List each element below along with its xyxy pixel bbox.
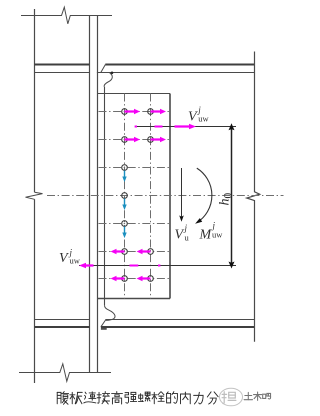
- Vuw top magenta arrow: [175, 124, 197, 130]
- bolt row 7 center line: [99, 278, 170, 280]
- bolt row1 col2: [148, 109, 154, 115]
- caption char 13 (dan, watermark-faded): [222, 392, 236, 404]
- bottom continuity plate thin line: [35, 319, 90, 321]
- column right flange outer line: [97, 16, 99, 373]
- bolt row4 col1: [122, 193, 128, 199]
- beam bottom flange bottom line: [101, 326, 255, 328]
- column bottom cut line with break: [19, 364, 111, 382]
- cyan arrow down row3 col1: [122, 171, 126, 183]
- magenta arrow left row6 col1: [111, 249, 125, 254]
- svg-text:V: V: [59, 251, 69, 266]
- bolt row7 col2: [148, 276, 154, 282]
- bolt row 6 center line: [99, 251, 170, 253]
- bolt row 5 center line: [99, 223, 170, 225]
- caption char 9: [167, 392, 178, 404]
- svg-text:0: 0: [223, 193, 235, 199]
- Vuw bottom magenta dot: [158, 265, 160, 267]
- magenta arrow right row1 col2: [151, 109, 167, 114]
- beam axis center line: [47, 195, 284, 197]
- caption char 2: [70, 392, 82, 403]
- bottom continuity plate thick line: [35, 326, 90, 328]
- Muw moment arc: [197, 168, 212, 222]
- magenta arrow left row7 col1: [111, 276, 125, 281]
- bottom flange backing bar: [101, 328, 107, 330]
- magenta arrow right row2 col2: [151, 137, 167, 142]
- label h0 rotated: [218, 193, 235, 206]
- cyan arrow down row4 col1: [122, 199, 126, 211]
- beam end cut line with break: [247, 52, 260, 342]
- cyan arrow down row5 col1: [122, 227, 126, 239]
- beam bottom flange top line: [105, 319, 254, 321]
- column left flange: [34, 9, 36, 383]
- bolt row 3 center line: [99, 167, 170, 169]
- caption char 3: [84, 392, 96, 403]
- h0 top arrowhead: [229, 123, 235, 130]
- magenta arrow right row1 col1: [125, 109, 141, 114]
- tack weld dot: [111, 72, 114, 75]
- bolt column center line 1: [124, 94, 126, 299]
- watermark scribble circle: [220, 388, 243, 406]
- beam top flange top line: [105, 64, 254, 66]
- bolt row2 col2: [148, 137, 154, 143]
- caption char 7: [138, 392, 150, 401]
- bolt column center line 2: [150, 94, 152, 299]
- svg-text:V: V: [175, 228, 185, 243]
- caption char 10: [181, 392, 191, 404]
- top flange groove weld bevel: [101, 65, 106, 73]
- Vu force line: [181, 168, 183, 219]
- caption char 1: [57, 392, 68, 405]
- column top cut line with break: [21, 7, 112, 24]
- top weld access hole: [104, 73, 112, 87]
- Vuw bottom leader line: [79, 265, 236, 267]
- shear plate right edge: [169, 94, 171, 299]
- bolt row2 col1: [122, 137, 128, 143]
- h0 dimension line: [231, 127, 233, 266]
- beam top flange underside line: [97, 72, 255, 74]
- shear plate bottom edge: [98, 298, 171, 300]
- column right flange inner line: [89, 16, 91, 373]
- bolt row 2 center line: [99, 139, 170, 141]
- bottom flange groove weld bevel: [101, 320, 105, 326]
- Vuw bottom magenta arrow: [79, 263, 94, 269]
- Vuw top magenta dash: [155, 126, 163, 128]
- caption char 5: [112, 392, 123, 404]
- svg-text:V: V: [188, 110, 198, 125]
- caption char 4: [97, 392, 109, 404]
- bolt row3 col1: [122, 165, 128, 171]
- magenta arrow right row2 col1: [125, 137, 141, 142]
- Vuw top leader line: [135, 126, 236, 128]
- shear plate top edge: [98, 93, 171, 95]
- beam web end line: [104, 87, 106, 306]
- svg-text:h: h: [218, 199, 233, 206]
- Vuw bottom magenta dash: [130, 265, 139, 267]
- magenta arrow left row7 col2: [137, 276, 151, 281]
- svg-text:uw: uw: [198, 114, 209, 124]
- bottom weld access hole: [105, 305, 116, 320]
- watermark text mu: [254, 392, 262, 400]
- bolt row6 col2: [148, 249, 154, 255]
- caption char 8: [152, 392, 164, 404]
- svg-text:M: M: [199, 228, 213, 243]
- bolt row6 col1: [122, 249, 128, 255]
- break symbol in column left flange: [26, 192, 43, 199]
- bolt row7 col1: [122, 276, 128, 282]
- Vuw top magenta dot: [135, 126, 137, 128]
- bolt row1 col1: [122, 109, 128, 115]
- h0 bottom arrowhead: [229, 262, 235, 269]
- Vu arrowhead: [179, 215, 184, 221]
- svg-text:j: j: [184, 223, 188, 233]
- magenta arrow left row6 col2: [137, 249, 151, 254]
- caption char 11: [194, 392, 203, 404]
- Muw arc arrowhead: [195, 218, 202, 224]
- top continuity plate thin line: [35, 72, 90, 74]
- bolt row5 col1: [122, 221, 128, 227]
- caption char 12: [207, 392, 218, 404]
- svg-text:uw: uw: [212, 230, 223, 240]
- watermark text tu: [244, 392, 252, 399]
- watermark text ba: [263, 393, 271, 399]
- bolt row 1 center line: [99, 111, 170, 113]
- svg-text:uw: uw: [70, 256, 81, 266]
- top continuity plate thick line: [35, 64, 90, 66]
- caption char 6: [125, 392, 137, 403]
